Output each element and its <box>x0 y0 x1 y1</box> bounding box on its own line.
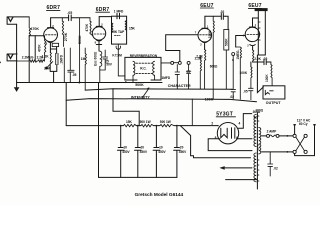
V3 cathode <box>202 42 207 50</box>
capacitor C2 .05 coupling <box>51 15 90 21</box>
svg-text:500K: 500K <box>135 83 144 87</box>
svg-text:.05: .05 <box>263 57 268 61</box>
V2 cathode <box>96 40 101 51</box>
output transformer windings <box>258 11 265 55</box>
pot 500K volume <box>79 18 81 83</box>
svg-text:8: 8 <box>46 42 48 46</box>
capacitor C12 10 450V <box>117 126 124 178</box>
wire lower to switch <box>262 151 294 153</box>
power transformer T3 core <box>256 113 258 190</box>
svg-text:470K: 470K <box>38 44 42 52</box>
fuse F1 2 AMP <box>267 134 270 137</box>
wire grid3 path <box>166 35 199 62</box>
wire 270K bottom with cap label rotated <box>63 48 65 83</box>
svg-text:1: 1 <box>255 23 257 27</box>
resistor R18 500 1W <box>160 124 174 126</box>
wire node down <box>34 36 36 61</box>
svg-text:REVERBERATION: REVERBERATION <box>130 54 158 58</box>
wire cathode node <box>251 62 264 67</box>
svg-text:100K: 100K <box>240 71 248 75</box>
ground return bus <box>99 176 177 178</box>
V3 grid dashes <box>200 34 211 36</box>
output jack symbol <box>265 90 273 94</box>
winding dashes <box>115 35 121 37</box>
svg-text:500 1W: 500 1W <box>160 120 171 124</box>
svg-text:Gretsch Model G6144: Gretsch Model G6144 <box>135 192 184 198</box>
wire cathode net bottom <box>50 65 57 83</box>
capacitor C11 .05 output <box>264 60 271 65</box>
tube pin marks <box>46 23 257 48</box>
V1 plate <box>48 18 54 28</box>
switch S1 contact a <box>171 61 174 64</box>
wire with capacitor C3 to bus <box>68 48 74 83</box>
svg-text:10: 10 <box>123 146 127 150</box>
resistor R13 2.2K cathode <box>253 50 254 62</box>
resistor R15 100K <box>271 62 272 86</box>
svg-text:.1MFD: .1MFD <box>60 54 64 64</box>
filter bus line <box>66 125 218 127</box>
winding bumps left edge <box>112 23 113 33</box>
triode V3 envelope <box>198 28 212 42</box>
svg-text:.02: .02 <box>230 95 235 99</box>
wire reverb out to switch <box>161 62 171 64</box>
svg-text:2: 2 <box>247 44 249 48</box>
svg-text:100K: 100K <box>265 74 269 82</box>
node dots on filter bus <box>120 125 122 127</box>
svg-text:450V: 450V <box>122 150 130 154</box>
resistor R17 500 1W <box>141 124 154 126</box>
switch S3 contacts <box>293 134 296 137</box>
V1 cathode <box>48 42 53 45</box>
wire grid node down to bus <box>28 36 30 83</box>
svg-text:Esc 600Ω: Esc 600Ω <box>93 51 97 66</box>
svg-text:.02: .02 <box>220 10 225 14</box>
svg-text:270K: 270K <box>64 32 68 41</box>
wire V3 plate top run <box>205 16 228 29</box>
capacitor C10 .05 <box>249 88 254 99</box>
svg-text:500 1W: 500 1W <box>140 120 151 124</box>
wire pot bottom <box>225 50 227 89</box>
resistor R8 470K grid2 <box>90 18 93 36</box>
resistor R10 cathode 2.2K <box>205 50 206 89</box>
wire grid to tube V1 <box>29 35 44 37</box>
wire node to bus <box>84 83 86 91</box>
capacitor C1 cathode bypass <box>56 53 58 64</box>
svg-text:OUTPUT: OUTPUT <box>266 101 282 105</box>
resistor R12 1MEG <box>236 47 242 99</box>
wire pin8 filament <box>208 139 252 151</box>
triode V2 envelope <box>92 27 105 40</box>
wire pin4 to transformer <box>238 114 251 129</box>
capacitor C16 .02 line <box>268 152 273 176</box>
svg-text:.05: .05 <box>67 11 72 15</box>
wire fuse to switch <box>279 135 293 137</box>
resistor R1 470K grid <box>29 17 30 36</box>
wire secondary down <box>257 55 263 93</box>
output transformer T2 core bar <box>255 8 268 11</box>
svg-text:.02: .02 <box>273 166 278 170</box>
wire pin6 filament <box>237 138 252 140</box>
svg-text:15K: 15K <box>129 27 136 31</box>
wire sleeve down to ground <box>16 24 18 82</box>
heater wire with arrow <box>221 167 252 169</box>
T3 secondary winding right <box>259 128 261 154</box>
switch S1 contact b <box>178 61 181 64</box>
wire to fuse <box>262 135 267 137</box>
capacitor C5 1MFD <box>117 13 120 18</box>
V3 plate <box>202 16 208 28</box>
switch S1 contact c <box>187 61 190 64</box>
svg-text:60 Cy: 60 Cy <box>299 122 308 126</box>
wire B+ branch diagonal <box>180 126 250 158</box>
V4 cathode <box>250 45 255 50</box>
svg-text:450V: 450V <box>158 150 166 154</box>
wire box bottom to reverb input <box>118 50 125 76</box>
V1 cathode resistor box <box>52 43 58 46</box>
svg-text:R.C.: R.C. <box>140 66 146 70</box>
capacitor C6 1MFD <box>175 65 180 89</box>
winding bumps right edge <box>125 20 126 30</box>
svg-text:1MEG-: 1MEG- <box>236 49 240 59</box>
svg-text:300Ω: 300Ω <box>253 110 261 114</box>
svg-text:.1MFD: .1MFD <box>161 76 171 80</box>
choke L1 cathode <box>100 51 102 82</box>
svg-text:7: 7 <box>195 31 197 35</box>
svg-text:.05: .05 <box>72 73 77 77</box>
resistor R14 100K tail <box>251 67 252 89</box>
wire C left leg <box>65 83 67 126</box>
pot wiper arrow 25M <box>46 62 53 69</box>
triode V1 envelope <box>44 28 58 42</box>
switch blade dot <box>0 62 1 64</box>
svg-text:2 AMP: 2 AMP <box>267 129 277 133</box>
resistor R9 2.2M <box>200 56 201 90</box>
input jack J2 <box>7 54 17 61</box>
reverberation unit box <box>125 57 161 80</box>
reverb coil right <box>153 61 155 80</box>
capacitor C9 .02 tremolo <box>231 56 236 100</box>
winding ticks <box>258 22 260 40</box>
svg-text:CHARACTER: CHARACTER <box>168 84 191 88</box>
capacitor C13 20 450V <box>135 126 142 178</box>
svg-text:100K: 100K <box>205 98 214 102</box>
capacitor C7 .02 <box>186 64 190 89</box>
input jack J1 <box>7 17 29 24</box>
reverb coil left <box>133 61 135 82</box>
svg-text:2: 2 <box>101 23 103 27</box>
V5 filament zigzag <box>221 128 227 138</box>
svg-text:1 MFD: 1 MFD <box>114 10 124 14</box>
resistor R6 270K plate load <box>62 18 63 47</box>
svg-text:.02: .02 <box>186 70 191 74</box>
resistor R4 470K vertical <box>45 36 46 61</box>
ground bus A <box>17 82 162 84</box>
svg-text:20: 20 <box>141 146 145 150</box>
switch S2 dot <box>232 59 234 61</box>
svg-text:470K: 470K <box>30 27 39 31</box>
V4 grid dashes <box>247 34 258 36</box>
svg-text:1M: 1M <box>81 57 86 61</box>
V2 plate <box>96 17 102 27</box>
resistor R7 1M <box>85 48 86 83</box>
capacitor C4 25MFD <box>100 50 108 70</box>
rectifier V5 envelope <box>217 123 238 144</box>
ground symbol <box>16 83 18 88</box>
V4 grid wire <box>236 36 246 48</box>
svg-text:220K: 220K <box>208 30 212 38</box>
bottom wire <box>226 179 258 181</box>
T3 core ticks <box>257 116 259 181</box>
svg-text:F.T.5M: F.T.5M <box>112 54 122 58</box>
svg-text:500K: 500K <box>225 38 229 46</box>
wire switch bottom loop <box>295 154 315 156</box>
svg-text:8: 8 <box>95 40 97 44</box>
T3 primary winding left <box>254 115 256 147</box>
resistor R11 220K plate load <box>213 16 214 99</box>
AC prong right <box>314 127 316 156</box>
wire plate pin2 <box>217 125 220 127</box>
resistor R16 15K <box>124 124 137 126</box>
V2 grid dashes <box>94 33 105 35</box>
resistor R5 1.2K cathode <box>50 52 51 66</box>
switch S2 contact <box>232 53 235 56</box>
resistor R3 2.2K <box>38 60 45 62</box>
switch cross wires <box>296 137 305 151</box>
wire node to filter <box>191 99 193 126</box>
svg-text:4: 4 <box>239 122 241 126</box>
junction dot <box>78 82 80 84</box>
capacitor C8 .02 coupling <box>221 14 225 20</box>
V4 plate <box>250 18 259 27</box>
capacitor C14 10 450V <box>153 126 160 178</box>
svg-text:15K: 15K <box>126 120 133 124</box>
output jack box <box>263 86 285 99</box>
svg-text:2.2MEG: 2.2MEG <box>22 56 34 60</box>
svg-text:450V: 450V <box>179 150 187 154</box>
svg-text:450V: 450V <box>140 150 148 154</box>
T3 winding left lower <box>254 153 256 182</box>
svg-text:1: 1 <box>207 24 209 28</box>
junction dot <box>287 135 289 137</box>
resistor R2 2.2MEG <box>17 60 37 62</box>
lamp symbol below box <box>116 44 121 49</box>
junction dot <box>125 81 127 83</box>
svg-text:5K TAP: 5K TAP <box>113 30 125 34</box>
svg-text:10: 10 <box>159 146 163 150</box>
svg-text:500K: 500K <box>78 35 82 44</box>
svg-text:.05: .05 <box>243 89 248 93</box>
svg-text:2: 2 <box>211 122 213 126</box>
wire C leg down <box>98 83 100 178</box>
grid node dot <box>243 35 245 37</box>
svg-text:2.2K: 2.2K <box>254 57 261 61</box>
bus line C <box>66 99 256 102</box>
capacitor C15 20 450V <box>174 126 181 178</box>
svg-text:600Ω: 600Ω <box>210 65 218 69</box>
svg-text:25M: 25M <box>44 67 51 71</box>
bus line B <box>85 89 233 90</box>
V5 plates <box>232 128 235 139</box>
pot 500K tone box <box>224 30 229 51</box>
svg-text:1.2K: 1.2K <box>42 55 49 59</box>
wire B down to D <box>113 89 139 126</box>
dashed coupling lines <box>136 62 153 64</box>
V1 grid dashes <box>46 34 57 36</box>
svg-text:470K: 470K <box>85 23 89 31</box>
AC prong left <box>294 127 296 135</box>
junction dot <box>287 151 289 153</box>
wire V2 plate to interstage <box>99 16 111 18</box>
svg-text:2: 2 <box>200 43 202 47</box>
svg-text:20: 20 <box>180 146 184 150</box>
wire cathode net top <box>50 44 56 53</box>
interstage transformer T1 box <box>112 16 127 44</box>
svg-text:2.2K: 2.2K <box>196 55 203 59</box>
svg-text:50V: 50V <box>106 63 113 67</box>
pot wiper arrow <box>143 89 149 98</box>
triode V4 envelope <box>245 27 259 41</box>
